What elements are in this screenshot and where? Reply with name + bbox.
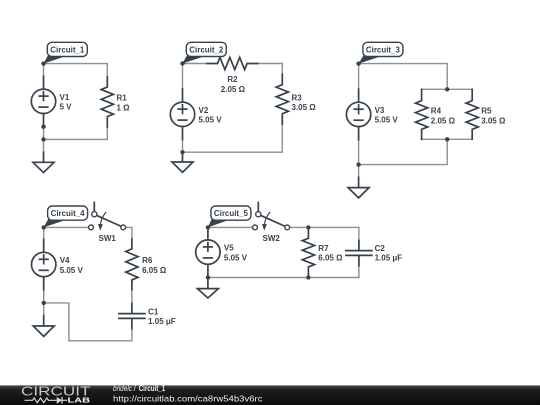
svg-text:Circuit_5: Circuit_5 [214,209,249,218]
svg-text:bridelc: bridelc [113,384,132,393]
junction R7 bottom [306,275,310,279]
svg-text:Circuit_3: Circuit_3 [366,45,401,54]
wire R6 to C1 cap [131,290,133,304]
svg-text:http://circuitlab.com/ca8rw54b: http://circuitlab.com/ca8rw54b3v6rc [113,393,263,403]
svg-text:C2: C2 [375,244,386,253]
svg-text:LAB: LAB [68,395,91,404]
voltage source V3 [346,89,370,140]
resistor R3 [276,74,288,124]
voltage source V4 [32,239,56,289]
wire C2 top left [183,63,208,65]
wire parallel top rail [422,88,473,90]
svg-text:R5: R5 [481,107,492,116]
wire C3 bottom jog [359,139,448,164]
ground C3 [348,177,369,198]
node Circuit_4 [42,225,46,229]
wire R3 top [281,64,283,75]
component value labels [60,75,506,326]
ground C2 [172,152,193,172]
ground C5 [197,278,218,299]
wire R3 bottom [281,124,283,152]
switch SW2 [253,202,290,230]
svg-text:V1: V1 [60,93,70,102]
wire C3 top [359,63,448,65]
wire C1 bottom [44,138,108,140]
svg-text:6.05 Ω: 6.05 Ω [142,266,167,275]
resistor R1 [101,77,113,127]
junction C4 ground [42,301,46,305]
label Circuit_2 [183,42,227,63]
voltage source V5 [196,227,220,277]
svg-text:C1: C1 [148,307,159,316]
svg-text:SW1: SW1 [99,234,117,243]
junction C1 bottom rail [41,137,45,141]
svg-text:Circuit_1: Circuit_1 [139,384,166,393]
wire C5 node to switch [208,226,253,228]
svg-text:5.05 V: 5.05 V [375,116,399,125]
wire SW1 to R6 [126,227,132,239]
label Circuit_4 [44,206,88,227]
svg-text:R7: R7 [318,244,329,253]
ground C1 [33,152,54,172]
svg-text:V5: V5 [224,244,234,253]
wire C1 top [44,63,108,65]
node Circuit_2 [180,61,184,65]
label Circuit_1 [44,42,88,63]
svg-text:6.05 Ω: 6.05 Ω [318,254,343,263]
svg-text:2.05 Ω: 2.05 Ω [221,85,246,94]
svg-text:V2: V2 [199,106,209,115]
svg-text:2.05 Ω: 2.05 Ω [431,116,456,125]
wire R1 top [106,64,108,77]
resistor R6 [126,239,138,290]
junction V1 bottom terminal [41,125,45,129]
svg-text:SW2: SW2 [263,234,281,243]
footer bar [0,385,540,405]
junction parallel bottom [445,137,449,141]
capacitor C2 [346,240,372,265]
label Circuit_3 [359,42,403,63]
svg-text:5 V: 5 V [60,103,73,112]
footer breadcrumb text [113,384,166,393]
svg-text:Circuit_2: Circuit_2 [189,45,224,54]
wire V4 to ground [43,290,45,316]
svg-text:1 Ω: 1 Ω [117,103,131,112]
node Circuit_5 [206,225,210,229]
wire V3 bottom [358,140,360,178]
voltage source V1 [31,76,55,126]
wire V2 bottom [182,140,184,153]
wire C2 bottom [183,151,283,153]
wire V4 top [43,227,45,239]
resistor R7 [302,227,314,277]
wire C2 cap top [358,227,360,240]
ground C4 [33,316,54,337]
svg-text:5.05 V: 5.05 V [199,116,223,125]
svg-text:Circuit_1: Circuit_1 [50,45,85,54]
wire C1 cap to V4 bottom [44,303,132,341]
svg-text:R3: R3 [292,93,303,102]
wire V3 top [358,64,360,90]
resistor R4 [416,89,428,139]
svg-text:R4: R4 [431,107,442,116]
node Circuit_1 [41,61,45,65]
capacitor C1 [119,303,145,328]
junction C3 ground [356,162,360,166]
wire C1 left upper [43,64,45,77]
resistor R2 [207,57,258,69]
node Circuit_3 [356,61,360,65]
svg-text:3.05 Ω: 3.05 Ω [481,116,506,125]
svg-text:V3: V3 [375,106,385,115]
junction parallel top [445,87,449,91]
resistor R5 [466,89,478,139]
junction C2 ground [180,150,184,154]
wire C2 top right [258,63,283,65]
wire C5 bottom [208,277,359,279]
svg-text:1.05 μF: 1.05 μF [148,317,176,326]
wire V2 top [182,64,184,90]
svg-text:R1: R1 [117,94,128,103]
wire SW2 to C2 branch [290,226,359,228]
label callouts [44,42,403,227]
wire C3 right drop [446,64,448,90]
junction C5 ground [206,275,210,279]
junction R7 top [306,225,310,229]
svg-text:5.05 V: 5.05 V [60,266,84,275]
wire C4 node to switch [44,226,89,228]
CircuitLab logo [21,384,91,405]
svg-text:3.05 Ω: 3.05 Ω [292,103,317,112]
svg-text:5.05 V: 5.05 V [224,253,248,262]
wire R1 bottom [106,127,108,139]
wire V1 to ground [43,127,45,153]
svg-text:1.05 μF: 1.05 μF [375,254,403,263]
wire parallel bottom rail [422,138,473,140]
wire C2 cap bottom [358,266,360,278]
svg-text:Circuit_4: Circuit_4 [51,209,86,218]
svg-text:R6: R6 [142,256,153,265]
label Circuit_5 [208,206,251,227]
svg-text:R2: R2 [227,75,238,84]
voltage source V2 [170,89,194,140]
switch SW1 [89,202,126,230]
svg-text:V4: V4 [60,256,70,265]
